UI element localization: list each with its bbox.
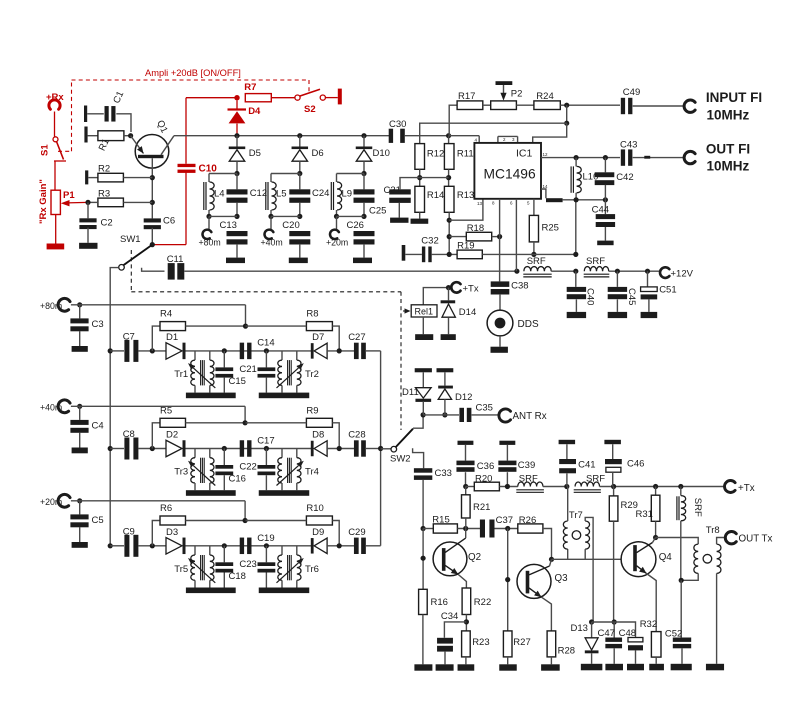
svg-text:Q4: Q4	[659, 552, 673, 563]
wire R23 to ground	[465, 657, 467, 664]
resistor R28	[547, 631, 575, 657]
diode D11	[402, 387, 431, 415]
wire P1 to ground	[55, 215, 57, 244]
svg-text:D5: D5	[249, 148, 261, 159]
svg-text:R12: R12	[427, 149, 444, 160]
resistor R15	[423, 515, 457, 534]
svg-text:R21: R21	[473, 502, 490, 513]
wire to R6	[152, 521, 160, 546]
svg-text:C45: C45	[626, 288, 637, 305]
resistor R7	[244, 82, 271, 102]
svg-text:R15: R15	[432, 515, 449, 526]
ground C26	[353, 258, 372, 264]
junction SRF/Tr8 primary	[679, 578, 684, 583]
wire Q1 collector main	[174, 135, 389, 137]
wire C49 to INPUT FI	[633, 105, 685, 107]
junction C13 top	[234, 214, 239, 219]
label C19	[257, 533, 274, 544]
resistor R23	[462, 631, 490, 657]
diode D2	[166, 430, 186, 457]
wire R22 to R23	[465, 615, 467, 631]
connector INPUT FI	[684, 100, 695, 112]
capacitor C15	[215, 351, 246, 393]
svg-text:R27: R27	[513, 637, 530, 648]
svg-text:C42: C42	[616, 172, 633, 183]
connector +12V	[660, 267, 669, 278]
resistor R20	[466, 474, 500, 491]
wire R25 down	[533, 242, 535, 255]
ground C40	[567, 312, 586, 318]
capacitor C3	[70, 305, 103, 346]
svg-text:+20m: +20m	[40, 497, 62, 507]
wire +40m drop	[244, 406, 246, 423]
junction D6	[297, 133, 302, 138]
wire S1 to P1	[54, 161, 56, 190]
svg-text:C38: C38	[511, 280, 528, 291]
capacitor C35	[459, 403, 493, 423]
capacitor C5	[70, 501, 103, 542]
svg-text:R25: R25	[542, 223, 559, 234]
junction L10 top	[574, 155, 579, 160]
capacitor C47	[598, 622, 623, 664]
ground Tr5	[186, 588, 236, 594]
svg-text:C43: C43	[620, 139, 637, 150]
wire D4 to main wire	[236, 124, 238, 136]
capacitor C28	[348, 430, 366, 457]
wire L10 bottom	[563, 199, 606, 201]
resistor R1	[97, 131, 124, 153]
ground C2	[79, 243, 97, 249]
wire to pin 4	[449, 135, 480, 137]
svg-text:R3: R3	[98, 189, 110, 200]
junction Q2 collector/C37	[463, 526, 468, 531]
wire filter top	[271, 173, 300, 175]
label OUT FI	[706, 142, 750, 157]
ground R23	[458, 664, 475, 670]
connector +20m band	[58, 494, 70, 507]
svg-text:D4: D4	[248, 106, 261, 117]
junction R31	[653, 484, 658, 489]
wire filter bottom	[271, 215, 300, 217]
wire R2 to base	[123, 177, 152, 179]
label Ampli +20dB [ON/OFF]	[145, 68, 241, 78]
svg-text:C11: C11	[167, 254, 184, 265]
svg-text:10MHz: 10MHz	[707, 108, 750, 123]
transformer Tr6	[277, 546, 319, 588]
tick on OUT FI wire	[644, 156, 650, 159]
junction SRF vertical	[678, 484, 683, 489]
ground C48	[627, 664, 644, 671]
resistor R31	[636, 487, 660, 522]
svg-text:R10: R10	[306, 503, 323, 514]
dashed gang link S1-S2	[58, 80, 309, 151]
capacitor C18	[215, 546, 246, 588]
junction C16	[222, 446, 227, 451]
junction C39/SRF	[505, 484, 510, 489]
wire Q3 collector to Q4 base	[552, 558, 634, 560]
switch SW1	[120, 234, 155, 266]
resistor R3	[98, 189, 124, 207]
junction C49 branch	[564, 103, 569, 108]
capacitor C12	[227, 174, 248, 217]
junction band drop R6	[243, 518, 248, 523]
svg-text:R31: R31	[636, 509, 653, 520]
wire C2 to ground	[87, 228, 89, 243]
wire bus to SW2	[381, 448, 391, 450]
stub bar C41	[559, 440, 576, 459]
diode D7	[311, 332, 327, 359]
junction C36/R20/R21	[463, 484, 468, 489]
wire pin12 to C43	[541, 157, 620, 159]
svg-text:R8: R8	[306, 309, 318, 320]
connector ANT Rx	[499, 409, 511, 422]
capacitor C4	[70, 406, 103, 447]
junction R12 wire	[564, 121, 569, 126]
junction C17	[264, 446, 269, 451]
wire junction down	[566, 105, 568, 123]
junction C42/C44	[603, 197, 608, 202]
svg-text:INPUT FI: INPUT FI	[706, 90, 762, 105]
svg-text:C47: C47	[598, 628, 615, 639]
capacitor C1	[105, 90, 127, 122]
capacitor C46	[605, 459, 644, 487]
svg-text:SRF: SRF	[586, 474, 605, 485]
capacitor C25	[354, 174, 375, 217]
ground red P1	[47, 244, 65, 250]
capacitor C20	[282, 220, 310, 258]
ground C45	[608, 312, 627, 318]
ground C52	[671, 664, 692, 671]
junction D10	[361, 133, 366, 138]
svg-text:C44: C44	[592, 205, 609, 216]
junction C24 top	[297, 171, 302, 176]
ground DDS	[491, 347, 508, 353]
capacitor C52	[665, 629, 691, 664]
wire SW2 upper contact	[413, 415, 423, 428]
junction Q4 collector	[653, 535, 658, 540]
svg-text:S1: S1	[40, 144, 51, 156]
svg-text:C14: C14	[257, 338, 274, 349]
svg-text:C12: C12	[250, 188, 267, 199]
svg-text:C31: C31	[384, 185, 401, 196]
wire diode to D9	[186, 545, 312, 547]
wire diode to D7	[186, 350, 312, 352]
wire Q2 collector up	[465, 529, 467, 539]
svg-text:D10: D10	[373, 148, 390, 159]
resistor R6	[160, 503, 186, 525]
wire Q4 collector short	[653, 538, 656, 543]
pin 4	[478, 136, 480, 143]
transistor Q2	[433, 538, 481, 576]
wire S2 to terminal	[325, 97, 337, 99]
label ANT Rx	[513, 411, 547, 422]
capacitor C49	[621, 87, 640, 114]
connector +80m band	[58, 298, 70, 311]
wire to C27	[327, 350, 354, 352]
ground Tr3	[186, 490, 236, 496]
diode D14	[441, 288, 477, 335]
svg-text:R6: R6	[160, 503, 172, 514]
pin label 4	[475, 138, 478, 143]
svg-text:C13: C13	[220, 220, 237, 231]
svg-text:R22: R22	[474, 597, 491, 608]
capacitor C30	[389, 119, 407, 143]
ground C4	[72, 448, 88, 454]
junction C4	[77, 404, 82, 409]
junction R11/R17/pin4	[446, 133, 451, 138]
pin label 8	[492, 201, 495, 206]
svg-text:SRF: SRF	[519, 474, 538, 485]
svg-text:C4: C4	[92, 420, 104, 431]
wire R20 to SRF	[499, 486, 517, 488]
diode D4	[228, 100, 262, 123]
capacitor C2	[79, 217, 112, 229]
resistor R12	[415, 144, 444, 170]
svg-text:C2: C2	[101, 217, 113, 228]
wire C29 to bus	[366, 545, 381, 547]
svg-text:+Tx: +Tx	[738, 483, 755, 494]
svg-text:SRF: SRF	[692, 498, 703, 517]
ground D14	[441, 334, 456, 340]
wire +Rx to S1	[54, 112, 56, 137]
resistor R2	[98, 163, 124, 182]
wire R16 to ground	[422, 615, 424, 665]
svg-text:R28: R28	[558, 646, 575, 657]
wire SW1 contact2 to C11	[142, 268, 165, 272]
wire filter bottom	[209, 215, 237, 217]
wire R21 to C37 node	[465, 518, 467, 529]
junction base/R3	[150, 200, 155, 205]
svg-text:R11: R11	[457, 149, 474, 160]
wire +20m band	[71, 500, 245, 502]
svg-text:Tr8: Tr8	[706, 525, 720, 536]
svg-text:C20: C20	[282, 220, 299, 231]
capacitor C17	[258, 449, 276, 491]
junction C14	[264, 348, 269, 353]
inductor L10	[571, 158, 598, 200]
svg-text:C52: C52	[665, 629, 682, 640]
pin label 12	[543, 152, 549, 157]
ground D13	[581, 664, 603, 671]
potentiometer P2	[491, 81, 523, 109]
switch S1	[40, 137, 67, 161]
ground Tr2	[259, 393, 310, 399]
label +40m band	[40, 402, 62, 412]
junction R18 left	[447, 234, 452, 239]
capacitor C44	[592, 200, 616, 241]
wire C28 to bus	[366, 448, 381, 450]
svg-text:D8: D8	[312, 430, 324, 441]
wire bus to C9	[110, 545, 124, 547]
label +80m	[199, 238, 221, 248]
junction D12	[442, 412, 447, 417]
wire SW1 to filter bus upper	[110, 268, 118, 351]
wire R32 ground	[655, 657, 657, 664]
svg-text:12: 12	[543, 152, 549, 157]
svg-text:D13: D13	[571, 623, 588, 634]
wire R12-R14	[419, 169, 421, 186]
wire mid to R9	[246, 422, 307, 424]
blade SW2	[396, 429, 413, 447]
junction C26 top	[361, 214, 366, 219]
wire +12V bus left	[184, 270, 517, 272]
ground Tr4	[259, 490, 310, 496]
choke SRF 1	[523, 256, 551, 277]
svg-text:R4: R4	[160, 309, 172, 320]
wire to C28	[327, 448, 354, 450]
capacitor C41	[559, 459, 595, 487]
wire bus to C8	[110, 448, 124, 450]
capacitor C24	[289, 174, 310, 217]
wire to C52	[680, 580, 682, 637]
junction bus row C7	[108, 348, 113, 353]
oscillator DDS	[487, 310, 539, 336]
svg-text:C23: C23	[239, 559, 256, 570]
label C24	[312, 188, 329, 199]
diode D13	[571, 622, 599, 664]
wire R19 to L10 node	[482, 253, 576, 255]
svg-text:C15: C15	[229, 376, 246, 387]
wire R10 right	[332, 521, 339, 546]
wire DDS to ground	[499, 336, 501, 347]
svg-text:C35: C35	[476, 403, 493, 414]
ground C44	[597, 241, 613, 246]
wire C35 to ANT	[472, 414, 498, 416]
svg-text:Rel1: Rel1	[415, 306, 434, 316]
wire C30 to R11 node	[405, 135, 449, 137]
wire C6 to SW1	[151, 228, 153, 245]
svg-text:C48: C48	[619, 628, 636, 639]
connector OUT Tx	[725, 532, 736, 544]
svg-text:P2: P2	[511, 89, 523, 100]
wire diode to D8	[186, 448, 312, 450]
transistor Q1	[131, 119, 174, 168]
svg-text:+80m: +80m	[199, 238, 221, 248]
diode D10	[356, 136, 390, 174]
capacitor C39	[498, 460, 535, 486]
ground R32	[649, 664, 664, 671]
stub bar C36	[458, 441, 474, 461]
resistor R17	[457, 91, 483, 109]
capacitor C29	[348, 527, 366, 554]
wire R7 to S2	[271, 97, 295, 99]
svg-text:C28: C28	[348, 430, 365, 441]
wire to C48	[614, 622, 635, 638]
svg-text:Tr7: Tr7	[569, 510, 583, 521]
svg-text:C8: C8	[123, 429, 135, 440]
resistor R9	[306, 405, 332, 427]
capacitor C36	[456, 461, 494, 487]
resistor R32	[640, 619, 661, 657]
capacitor C43	[620, 139, 637, 165]
svg-text:S2: S2	[304, 104, 316, 115]
junction R11/R13	[446, 175, 451, 180]
svg-text:C49: C49	[623, 87, 640, 98]
capacitor C45	[608, 271, 637, 312]
capacitor C22 series	[239, 440, 256, 472]
wire to R7	[186, 97, 237, 99]
capacitor C23 series	[239, 538, 256, 570]
wire Q4 collector to Tr8	[656, 538, 699, 545]
wire to D1	[139, 350, 167, 352]
svg-text:SRF: SRF	[527, 256, 546, 267]
wire Q3 collector short	[550, 559, 552, 566]
svg-text:MC1496: MC1496	[484, 167, 536, 182]
svg-text:Tr2: Tr2	[305, 369, 319, 380]
capacitor C9	[123, 526, 139, 557]
svg-text:R17: R17	[458, 91, 475, 102]
svg-text:SW2: SW2	[390, 454, 411, 465]
wire to pin 1	[533, 123, 567, 143]
svg-text:OUT FI: OUT FI	[706, 142, 750, 157]
wire R5 to R9	[186, 422, 246, 424]
ground R28	[541, 664, 560, 670]
junction D5	[234, 133, 239, 138]
capacitor C48	[619, 628, 643, 664]
potentiometer P1	[51, 190, 75, 215]
svg-text:C21: C21	[239, 364, 256, 375]
svg-text:D9: D9	[312, 527, 324, 538]
wire R18 right	[492, 236, 500, 238]
junction D11	[421, 412, 426, 417]
label +20m band	[40, 497, 62, 507]
junction Q3 base	[505, 577, 510, 582]
junction bus/C40	[573, 269, 578, 274]
label +Tx relay	[463, 283, 479, 294]
wire R8 right	[332, 326, 339, 351]
label Rx Gain	[38, 179, 49, 224]
wire mid to R8	[246, 325, 307, 327]
junction R8 right	[337, 348, 342, 353]
relay Rel1	[411, 305, 437, 317]
diode D9	[311, 527, 327, 554]
ground R16	[414, 664, 432, 670]
connector +Tx	[725, 481, 736, 493]
wire R26 to Q3 collector	[543, 529, 552, 560]
wire C10 lower	[185, 173, 187, 245]
wire filter top	[209, 173, 237, 175]
wire D13 to C47	[592, 621, 615, 623]
pin label 13	[477, 201, 483, 206]
pin label 6	[510, 201, 513, 206]
wire to R5	[152, 423, 160, 449]
diode D5	[229, 136, 261, 174]
switch S2	[295, 89, 326, 115]
wire filter bus lower	[109, 351, 111, 546]
wire C38 to DDS	[499, 294, 501, 310]
svg-text:R5: R5	[160, 405, 172, 416]
svg-text:Tr4: Tr4	[305, 467, 319, 478]
junction R9 right	[337, 446, 342, 451]
wire SW1 to C10 red	[152, 244, 186, 246]
wire R11-R13	[448, 169, 450, 186]
label C17	[257, 436, 274, 447]
stub bar D11	[415, 368, 432, 388]
wire to R2	[88, 177, 98, 179]
resistor R13	[444, 186, 474, 212]
label C12	[250, 188, 267, 199]
ground C5	[72, 542, 88, 548]
transistor Q4	[621, 542, 672, 577]
ground Tr1	[186, 393, 236, 399]
ground Tr6	[259, 588, 310, 594]
capacitor C37	[480, 515, 513, 538]
capacitor C27	[348, 332, 366, 359]
label 10MHz out	[707, 159, 750, 174]
svg-text:C19: C19	[257, 533, 274, 544]
pin label 14	[543, 184, 549, 189]
wire to C2	[87, 202, 89, 218]
